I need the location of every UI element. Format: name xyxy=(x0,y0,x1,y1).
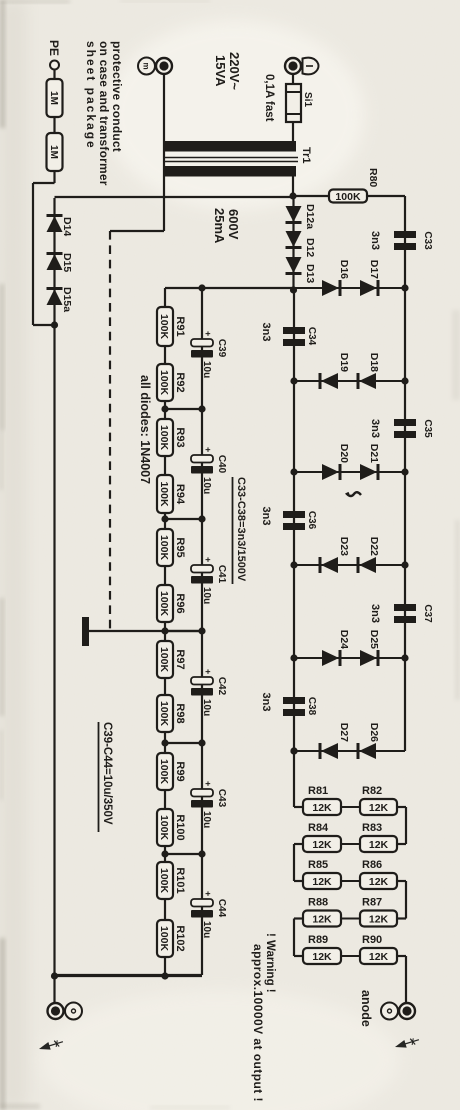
svg-text:C38: C38 xyxy=(306,697,317,716)
svg-text:R82: R82 xyxy=(362,785,382,797)
diode xyxy=(47,289,63,305)
svg-text:10u: 10u xyxy=(201,921,212,938)
wire 1M#2 to jog xyxy=(53,171,55,183)
svg-text:C41: C41 xyxy=(216,565,227,584)
svg-text:100K: 100K xyxy=(158,647,170,673)
svg-text:D13: D13 xyxy=(304,264,316,283)
svg-text:C37: C37 xyxy=(422,604,433,623)
svg-text:D22: D22 xyxy=(368,537,380,556)
wire colB bottom xyxy=(294,843,303,845)
svg-text:D12a: D12a xyxy=(304,204,316,229)
svg-text:D16: D16 xyxy=(338,260,350,279)
snake column 4 wires xyxy=(303,955,397,957)
wire output(-) node up to cap chain xyxy=(55,975,203,977)
svg-text:R90: R90 xyxy=(362,934,382,946)
svg-text:+: + xyxy=(203,557,213,562)
terminal anode output xyxy=(381,1003,398,1020)
svg-text:protective conduct: protective conduct xyxy=(110,41,124,152)
junction resistor chain node xyxy=(161,739,168,746)
terminal PE xyxy=(50,61,59,70)
svg-text:C42: C42 xyxy=(216,677,227,696)
svg-text:R92: R92 xyxy=(174,372,186,392)
wire to anode terminal xyxy=(405,956,407,1003)
wire colE top xyxy=(397,955,406,957)
resistor R93 (100K) xyxy=(157,419,173,456)
wire secondary to rectifier node xyxy=(292,177,294,197)
wire PE to R1M#1 xyxy=(53,70,55,80)
svg-text:R93: R93 xyxy=(174,427,186,447)
ladder row 6 vertical wire xyxy=(294,750,405,752)
transformer Tr1 primary winding xyxy=(165,141,296,152)
wire chain bottom to output rail xyxy=(55,974,203,976)
resistor R88 (12K) xyxy=(303,911,341,927)
snake column 1 wires xyxy=(303,843,397,845)
resistor R89 (12K) xyxy=(303,948,341,964)
ladder row 1 vertical wire xyxy=(294,287,405,289)
wire colA top xyxy=(397,806,406,808)
diode xyxy=(359,373,376,389)
diode xyxy=(321,743,338,759)
junction cap chain node xyxy=(198,515,205,522)
wire node tie xyxy=(165,518,202,520)
wire node tie xyxy=(165,742,202,744)
junction cap chain node xyxy=(198,739,205,746)
diode xyxy=(322,650,339,666)
resistor R95 (100K) xyxy=(157,529,173,566)
svg-text:12K: 12K xyxy=(369,876,389,888)
svg-text:C33: C33 xyxy=(422,231,433,250)
junction row2 bottom xyxy=(290,377,297,384)
svg-text:+: + xyxy=(203,669,213,674)
svg-text:D17: D17 xyxy=(368,260,380,279)
junction resistor chain node xyxy=(161,405,168,412)
wire l terminal through fuse to primary xyxy=(292,74,294,141)
ground symbol xyxy=(82,617,89,646)
wire between 1M resistors xyxy=(53,117,55,133)
svg-text:R91: R91 xyxy=(174,316,186,336)
wire R80 to secondary node xyxy=(293,195,329,197)
junction cap chain node xyxy=(198,850,205,857)
svg-text:100K: 100K xyxy=(158,425,170,451)
resistor 1M (second) xyxy=(47,133,63,171)
svg-text:R97: R97 xyxy=(174,649,186,669)
diode xyxy=(322,280,339,296)
wire bottom jog B-C xyxy=(293,844,295,881)
resistor R99 (100K) xyxy=(157,753,173,790)
svg-text:10u: 10u xyxy=(201,699,212,716)
svg-text:3n3: 3n3 xyxy=(369,604,381,623)
junction row6 / snake input xyxy=(290,747,297,754)
svg-text:0,1A fast: 0,1A fast xyxy=(263,74,275,122)
svg-text:12K: 12K xyxy=(369,802,389,814)
terminal mains l xyxy=(303,58,319,75)
wire case line down xyxy=(110,230,164,232)
svg-text:on case and transformer: on case and transformer xyxy=(97,41,111,186)
svg-text:10u: 10u xyxy=(201,811,212,828)
diode xyxy=(321,557,338,573)
svg-text:100K: 100K xyxy=(158,868,170,894)
svg-text:C43: C43 xyxy=(216,789,227,808)
junction row6 bottom xyxy=(290,747,297,754)
wire to output(-) terminal xyxy=(53,976,55,1003)
wire colD bottom xyxy=(294,917,303,919)
junction cap chain top xyxy=(198,284,205,291)
svg-text:3n3: 3n3 xyxy=(369,231,381,250)
svg-text:R99: R99 xyxy=(174,761,186,781)
wire colC top xyxy=(397,880,406,882)
wire mains m line xyxy=(163,74,165,231)
svg-text:C40: C40 xyxy=(216,455,227,474)
capacitor C33 (3n3) xyxy=(394,231,416,238)
svg-text:100K: 100K xyxy=(335,191,361,203)
wire ladder top rail xyxy=(404,196,406,751)
capacitor C43 (10u electrolytic) xyxy=(191,789,213,797)
resistor R97 (100K) xyxy=(157,641,173,678)
junction row2 top xyxy=(401,377,408,384)
junction D15a anode / PE net xyxy=(51,321,58,328)
diode xyxy=(47,254,63,270)
svg-text:R102: R102 xyxy=(174,925,186,951)
junction secondary/R80/D12a/D14 node xyxy=(289,192,296,199)
svg-text:12K: 12K xyxy=(312,876,332,888)
resistor R86 (12K) xyxy=(360,873,397,889)
svg-text:D18: D18 xyxy=(368,353,380,372)
resistor 1M (first) xyxy=(47,79,63,117)
svg-text:R86: R86 xyxy=(362,859,382,871)
svg-text:3n3: 3n3 xyxy=(260,693,272,712)
svg-text:+: + xyxy=(203,781,213,786)
wire ladder to divider chain xyxy=(165,287,294,289)
wire jog down xyxy=(33,182,55,184)
junction row4 top xyxy=(401,561,408,568)
svg-text:R89: R89 xyxy=(308,934,328,946)
capacitor C42 (10u electrolytic) xyxy=(191,677,213,685)
svg-text:12K: 12K xyxy=(369,839,389,851)
diode xyxy=(360,280,377,296)
wire colE bottom xyxy=(294,955,303,957)
wire colD top xyxy=(397,917,406,919)
wire top jog C-D xyxy=(405,881,407,919)
resistor R84 (12K) xyxy=(303,836,341,852)
wire ladder lower rail xyxy=(293,290,295,751)
terminal output(-) xyxy=(65,1003,82,1020)
wire top jog A-B xyxy=(405,807,407,844)
wire D14 cathode up to transformer secondary node xyxy=(55,196,294,198)
svg-text:PE: PE xyxy=(47,40,61,56)
svg-text:C34: C34 xyxy=(306,327,317,346)
svg-text:D15a: D15a xyxy=(61,287,73,312)
svg-text:D15: D15 xyxy=(61,253,73,272)
wire colB top xyxy=(397,843,406,845)
svg-text:+: + xyxy=(203,891,213,896)
flash arrow mark bottom-left xyxy=(38,1038,64,1053)
junction resistor chain node xyxy=(161,627,168,634)
diode xyxy=(286,231,302,247)
svg-text:R94: R94 xyxy=(174,484,186,505)
resistor R82 (12K) xyxy=(360,799,397,815)
svg-text:C35: C35 xyxy=(422,419,433,438)
svg-text:R98: R98 xyxy=(174,703,186,723)
svg-text:100K: 100K xyxy=(158,815,170,841)
junction resistor chain node xyxy=(161,515,168,522)
svg-text:anode: anode xyxy=(359,990,373,1027)
svg-text:Si1: Si1 xyxy=(302,92,313,107)
junction row3 top xyxy=(401,468,408,475)
capacitor C35 (3n3) xyxy=(394,419,416,426)
ladder row 3 vertical wire xyxy=(294,471,405,473)
wire electrolytic chain rail xyxy=(201,288,203,975)
resistor R91 (100K) xyxy=(157,307,173,346)
diode xyxy=(359,743,376,759)
svg-text:100K: 100K xyxy=(158,535,170,561)
svg-text:12K: 12K xyxy=(312,802,332,814)
svg-text:12K: 12K xyxy=(312,839,332,851)
junction row5 bottom xyxy=(290,654,297,661)
svg-text:1M: 1M xyxy=(48,91,59,105)
svg-text:220V~: 220V~ xyxy=(227,52,242,90)
svg-text:12K: 12K xyxy=(369,913,389,925)
svg-text:R100: R100 xyxy=(174,814,186,840)
junction cap chain node xyxy=(198,627,205,634)
diode xyxy=(286,257,302,273)
svg-text:Tr1: Tr1 xyxy=(300,147,312,164)
resistor R92 (100K) xyxy=(157,364,173,401)
svg-text:15VA: 15VA xyxy=(213,55,228,87)
wire case earth dashed line xyxy=(109,231,111,633)
svg-text:m: m xyxy=(142,62,151,69)
transformer Tr1 secondary winding xyxy=(165,166,296,177)
wire colA bottom xyxy=(294,806,303,808)
ladder row 2 vertical wire xyxy=(294,380,405,382)
wire node tie xyxy=(165,853,202,855)
diode xyxy=(359,557,376,573)
snake column 0 wires xyxy=(303,806,397,808)
svg-text:100K: 100K xyxy=(158,701,170,727)
diode xyxy=(360,650,377,666)
svg-text:R96: R96 xyxy=(174,593,186,613)
svg-text:R84: R84 xyxy=(308,822,329,834)
svg-text:10u: 10u xyxy=(201,477,212,494)
scan smudge marks (decorative) xyxy=(0,0,5,128)
wire node tie xyxy=(165,630,202,632)
wire output(-) rail xyxy=(53,198,55,976)
svg-text:100K: 100K xyxy=(158,591,170,617)
wire colC bottom xyxy=(294,880,303,882)
svg-text:100K: 100K xyxy=(158,370,170,396)
resistor R90 (12K) xyxy=(360,948,397,964)
junction row4 bottom xyxy=(290,561,297,568)
diode xyxy=(286,206,302,222)
svg-text:100K: 100K xyxy=(158,926,170,952)
flash arrow mark bottom-right xyxy=(394,1036,420,1051)
transformer Tr1 core xyxy=(163,157,298,159)
capacitor C34 (3n3) xyxy=(283,327,305,334)
capacitor C41 (10u electrolytic) xyxy=(191,565,213,573)
svg-text:10u: 10u xyxy=(201,587,212,604)
svg-text:C39: C39 xyxy=(216,339,227,358)
junction cap chain node xyxy=(198,405,205,412)
svg-text:1M: 1M xyxy=(48,145,59,159)
svg-text:D14: D14 xyxy=(61,217,73,236)
svg-text:3n3: 3n3 xyxy=(369,419,381,438)
wire node tie xyxy=(165,408,202,410)
resistor R94 (100K) xyxy=(157,475,173,513)
svg-text:12K: 12K xyxy=(312,913,332,925)
ladder row 5 vertical wire xyxy=(294,657,405,659)
svg-text:D12: D12 xyxy=(304,238,316,257)
svg-text:D21: D21 xyxy=(368,444,380,463)
resistor R85 (12K) xyxy=(303,873,341,889)
wire top rail to R80 xyxy=(367,195,405,197)
capacitor C38 (3n3) xyxy=(283,697,305,704)
capacitor C37 (3n3) xyxy=(394,604,416,611)
resistor R96 (100K) xyxy=(157,585,173,622)
resistor R83 (12K) xyxy=(360,836,397,852)
svg-text:10u: 10u xyxy=(201,361,212,378)
svg-text:12K: 12K xyxy=(369,951,389,963)
svg-text:D23: D23 xyxy=(338,537,350,556)
resistor R98 (100K) xyxy=(157,695,173,732)
junction row1 top xyxy=(401,284,408,291)
svg-text:+: + xyxy=(203,331,213,336)
svg-text:100K: 100K xyxy=(158,481,170,507)
svg-text:600V: 600V xyxy=(226,209,241,240)
svg-text:25mA: 25mA xyxy=(212,208,227,244)
junction output(-) node xyxy=(51,972,58,979)
wire jog across xyxy=(32,183,34,325)
diode xyxy=(321,373,338,389)
svg-text:C44: C44 xyxy=(216,899,227,918)
svg-text:R85: R85 xyxy=(308,859,328,871)
snake column 3 wires xyxy=(303,918,397,920)
wire ground stem xyxy=(89,630,202,632)
diode xyxy=(47,216,63,232)
wire bottom jog D-E xyxy=(293,919,295,957)
wire jog up to node xyxy=(33,324,55,326)
svg-text:R80: R80 xyxy=(367,168,379,187)
stray scan mark xyxy=(347,492,361,496)
svg-text:12K: 12K xyxy=(312,951,332,963)
svg-text:R101: R101 xyxy=(174,867,186,893)
capacitor C40 (10u electrolytic) xyxy=(191,455,213,463)
svg-text:100K: 100K xyxy=(158,314,170,340)
resistor R102 (100K) xyxy=(157,920,173,957)
svg-text:C33-C38=3n3/1500V: C33-C38=3n3/1500V xyxy=(235,477,247,582)
diode xyxy=(322,464,339,480)
junction row5 top xyxy=(401,654,408,661)
svg-text:R95: R95 xyxy=(174,537,186,557)
svg-text:R88: R88 xyxy=(308,897,328,909)
terminal mains m xyxy=(138,58,155,75)
svg-text:R81: R81 xyxy=(308,785,328,797)
fuse Si1 (0,1A fast) xyxy=(286,84,301,122)
resistor R87 (12K) xyxy=(360,911,397,927)
svg-text:3n3: 3n3 xyxy=(260,323,272,342)
resistor R80 (100K) xyxy=(329,190,367,203)
svg-text:R83: R83 xyxy=(362,822,382,834)
svg-text:D19: D19 xyxy=(338,353,350,372)
svg-text:100K: 100K xyxy=(158,759,170,785)
junction row3 bottom xyxy=(290,468,297,475)
resistor R81 (12K) xyxy=(303,799,341,815)
resistor R100 (100K) xyxy=(157,809,173,846)
diode xyxy=(360,464,377,480)
svg-text:all diodes: 1N4007: all diodes: 1N4007 xyxy=(138,375,152,484)
resistor R101 (100K) xyxy=(157,862,173,899)
capacitor C39 (10u electrolytic) xyxy=(191,339,213,347)
svg-text:R87: R87 xyxy=(362,897,382,909)
wire rectifier chain xyxy=(292,196,294,288)
svg-text:3n3: 3n3 xyxy=(260,507,272,526)
junction D13 cathode / ladder xyxy=(290,286,297,293)
capacitor C44 (10u electrolytic) xyxy=(191,899,213,907)
wire snake entry xyxy=(293,751,295,807)
svg-text:approx.10000V at output !: approx.10000V at output ! xyxy=(251,944,265,1102)
junction resistor chain node xyxy=(161,850,168,857)
svg-text:D26: D26 xyxy=(368,723,380,742)
svg-text:+: + xyxy=(203,447,213,452)
junction R102/output rail xyxy=(161,972,168,979)
svg-text:D27: D27 xyxy=(338,723,350,742)
snake column 2 wires xyxy=(303,880,397,882)
svg-text:C36: C36 xyxy=(306,511,317,530)
svg-text:D20: D20 xyxy=(338,444,350,463)
wire 100K chain rail xyxy=(164,288,166,975)
svg-text:sheet package: sheet package xyxy=(84,41,98,150)
svg-text:D25: D25 xyxy=(368,630,380,649)
capacitor C36 (3n3) xyxy=(283,511,305,518)
svg-text:C39-C44=10u/350V: C39-C44=10u/350V xyxy=(101,722,113,825)
svg-text:D24: D24 xyxy=(338,630,350,649)
ladder row 4 vertical wire xyxy=(294,564,405,566)
